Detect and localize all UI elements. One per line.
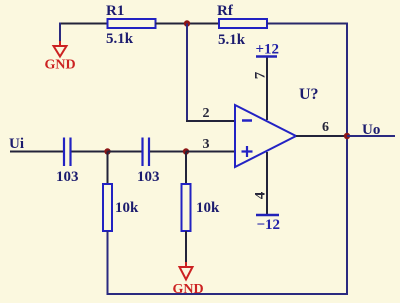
resistor R2 10k <box>103 184 139 231</box>
svg-text:Ui: Ui <box>9 136 24 152</box>
svg-text:103: 103 <box>56 169 79 185</box>
resistor R1 <box>106 3 156 47</box>
svg-text:5.1k: 5.1k <box>106 31 134 47</box>
pin number 3 <box>203 137 210 152</box>
svg-text:+12: +12 <box>256 42 280 58</box>
wire Ui to C1 <box>10 151 63 153</box>
node A junction <box>104 148 110 154</box>
svg-text:GND: GND <box>172 282 203 297</box>
net label Ui <box>9 136 24 152</box>
wire node B down to R3 <box>185 152 187 185</box>
svg-text:4: 4 <box>253 191 269 199</box>
svg-text:Uo: Uo <box>362 122 380 138</box>
svg-text:103: 103 <box>137 169 160 185</box>
svg-text:Rf: Rf <box>217 3 234 19</box>
pin 4 wire <box>266 152 268 215</box>
resistor R3 10k <box>182 184 221 231</box>
wire node A down to R2 <box>107 152 109 185</box>
wire R2 down to bottom wire <box>107 231 109 294</box>
svg-text:R1: R1 <box>106 3 124 19</box>
svg-text:6: 6 <box>322 120 329 135</box>
op-amp U? <box>235 86 319 167</box>
svg-text:10k: 10k <box>196 200 220 216</box>
wire pin 3 horizontal <box>186 151 235 153</box>
net label Uo <box>362 122 380 138</box>
wire top-left horizontal to R1 <box>60 23 108 25</box>
svg-text:7: 7 <box>253 71 269 79</box>
svg-text:2: 2 <box>203 106 210 121</box>
pin number 2 <box>203 106 210 121</box>
power -12 <box>256 215 280 233</box>
capacitor C1 103 <box>56 138 79 186</box>
wire right vertical feedback <box>346 23 348 295</box>
node B junction <box>183 148 189 154</box>
wire node A to C2 <box>108 151 143 153</box>
svg-text:−12: −12 <box>257 217 281 233</box>
svg-text:GND: GND <box>44 58 75 73</box>
wire top-left vertical to GND <box>59 23 61 42</box>
svg-text:3: 3 <box>203 137 210 152</box>
wire output to Uo <box>347 135 395 137</box>
pin number 7 <box>253 71 269 79</box>
node output junction <box>344 133 350 139</box>
svg-text:U?: U? <box>299 86 319 103</box>
wire C2 to node B <box>150 151 186 153</box>
svg-text:5.1k: 5.1k <box>218 32 246 48</box>
wire Rf to right corner <box>267 23 347 25</box>
node junction top <box>184 20 190 26</box>
svg-text:10k: 10k <box>115 200 139 216</box>
wire vertical x187 down to pin2 <box>186 24 188 122</box>
pin number 4 <box>253 191 269 199</box>
wire R3 down to ground <box>185 231 187 262</box>
resistor Rf <box>217 3 267 48</box>
wire pin 2 horizontal <box>186 120 235 122</box>
pin 6 output wire <box>296 135 347 137</box>
pin 7 wire <box>266 57 268 120</box>
wire between R1 and Rf <box>156 23 220 25</box>
capacitor C2 103 <box>137 138 160 186</box>
pin number 6 <box>322 120 329 135</box>
ground GND top-left <box>44 41 75 73</box>
wire C1 to node A <box>72 151 108 153</box>
wire bottom horizontal <box>107 293 349 295</box>
power +12 <box>256 42 280 58</box>
ground GND bottom <box>172 262 203 297</box>
